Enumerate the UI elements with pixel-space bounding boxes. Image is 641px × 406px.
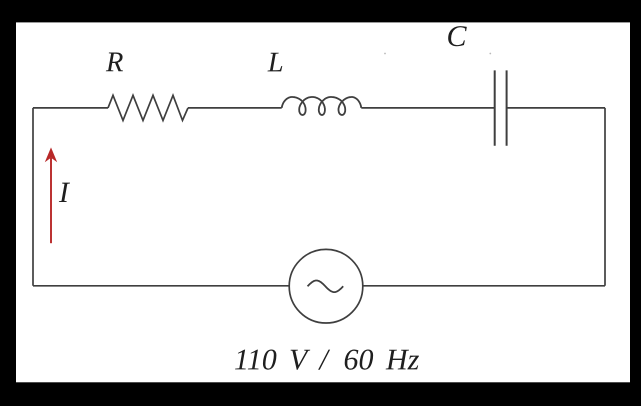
wire: bottom left segment bbox=[33, 285, 289, 287]
resistor R bbox=[108, 95, 188, 120]
wire: left vertical bbox=[32, 108, 34, 286]
capacitor C plate right bbox=[506, 70, 508, 145]
label L bbox=[267, 53, 282, 72]
label I bbox=[59, 183, 70, 202]
AC source V1 circle bbox=[289, 249, 363, 323]
wire: top left segment bbox=[33, 107, 108, 109]
wire: bottom right segment bbox=[363, 285, 605, 287]
wire: inductor to capacitor bbox=[361, 107, 494, 109]
stray mark right bbox=[489, 53, 491, 55]
capacitor C plate left bbox=[494, 70, 496, 145]
label C bbox=[448, 26, 467, 46]
wire: capacitor to right corner bbox=[507, 107, 605, 109]
AC source sine symbol bbox=[308, 281, 344, 293]
stray mark left bbox=[384, 53, 386, 55]
label R bbox=[106, 53, 123, 72]
inductor L bbox=[282, 97, 362, 115]
current arrow I head bbox=[45, 147, 57, 162]
wire: right vertical bbox=[604, 108, 606, 286]
current arrow I shaft bbox=[50, 158, 52, 243]
wire: resistor to inductor bbox=[188, 107, 282, 109]
source value label 110 V / 60 Hz bbox=[235, 349, 419, 369]
